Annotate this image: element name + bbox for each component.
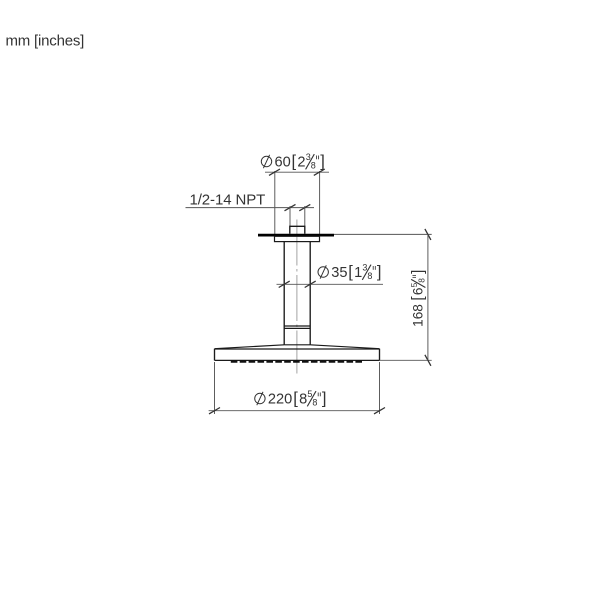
dim Ø35 dimension line [277, 283, 384, 285]
dim Ø60 label [261, 152, 324, 170]
svg-text:8: 8 [417, 278, 427, 283]
dim Ø60 dimension line [265, 171, 329, 173]
shower head rim right edge [379, 349, 381, 361]
dim Ø60 tick left [269, 169, 280, 175]
shower head rim left edge [214, 349, 216, 361]
svg-text:220: 220 [268, 392, 292, 408]
svg-text:]: ] [322, 390, 327, 408]
dim 168 dimension line [427, 234, 429, 360]
shower head top slope right [310, 345, 379, 349]
svg-text:1: 1 [354, 265, 362, 281]
svg-text:35: 35 [331, 265, 347, 281]
pipe joint ring upper line [284, 325, 310, 327]
svg-text:[: [ [410, 296, 427, 301]
NPT tick right [299, 204, 310, 210]
dim Ø220 label [255, 389, 327, 407]
pipe left edge [283, 242, 285, 345]
svg-text:8: 8 [312, 398, 317, 408]
dim Ø60 extension line left [274, 171, 276, 234]
shower head top slope left [215, 345, 285, 349]
NPT extension line left [289, 206, 291, 226]
dim Ø60 extension line right [319, 171, 321, 234]
dim Ø220 tick right [374, 408, 385, 414]
dim Ø60 tick right [314, 169, 325, 175]
threaded nipple [290, 226, 305, 234]
svg-text:[: [ [292, 153, 297, 171]
dim Ø35 tick left [279, 281, 290, 287]
svg-text:8: 8 [367, 271, 372, 281]
svg-text:168: 168 [411, 304, 426, 327]
dim 168 bottom reference line [380, 359, 432, 361]
dim Ø220 extension line right [379, 362, 381, 414]
pipe joint ring lower line [284, 327, 310, 329]
shower head rim top line [215, 348, 380, 350]
svg-text:6: 6 [411, 288, 426, 296]
flange (ceiling rose) [275, 236, 320, 241]
NPT leader line [186, 207, 315, 209]
svg-text:1/2-14 NPT: 1/2-14 NPT [190, 191, 266, 208]
ceiling line (thick) [258, 234, 334, 237]
svg-text:[: [ [293, 390, 298, 408]
svg-text:60: 60 [275, 155, 291, 171]
ceiling reference line to 168 dim [334, 233, 432, 235]
dim Ø35 label [318, 263, 381, 281]
dim Ø220 tick left [209, 408, 220, 414]
svg-text:mm [inches]: mm [inches] [6, 33, 85, 50]
svg-text:8: 8 [311, 161, 316, 171]
pipe right edge [309, 242, 311, 345]
svg-text:]: ] [377, 263, 382, 281]
pipe bottom line [284, 344, 310, 346]
svg-text:[: [ [348, 263, 353, 281]
dim Ø220 extension line left [214, 362, 216, 414]
spray face nozzle dashes [231, 360, 364, 363]
svg-text:]: ] [320, 153, 325, 171]
dim Ø35 tick right [305, 281, 316, 287]
dim 168 top reference tick [425, 229, 431, 240]
NPT tick left [285, 204, 296, 210]
svg-text:8: 8 [299, 392, 307, 408]
shower head bottom line [215, 359, 380, 361]
centerline [296, 220, 298, 374]
svg-text:2: 2 [297, 155, 305, 171]
dim Ø220 dimension line [209, 410, 381, 412]
dim 168 label (rotated) [409, 270, 427, 327]
svg-text:]: ] [410, 270, 427, 274]
dim 168 bottom tick [425, 355, 431, 366]
NPT extension line right [304, 206, 306, 226]
